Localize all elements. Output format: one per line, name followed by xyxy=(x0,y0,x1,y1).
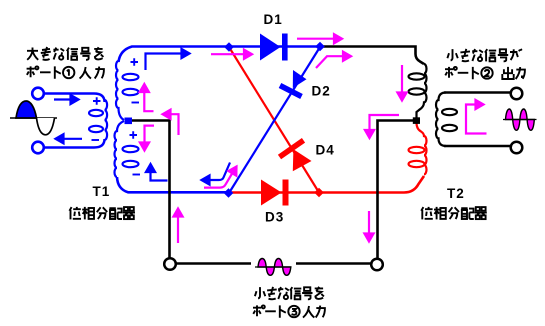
svg-text:D4: D4 xyxy=(316,143,335,158)
svg-text:D1: D1 xyxy=(264,12,283,27)
svg-text:T1: T1 xyxy=(93,184,111,199)
svg-text:T2: T2 xyxy=(447,186,465,201)
svg-text:D2: D2 xyxy=(312,84,331,99)
svg-text:D3: D3 xyxy=(265,210,284,225)
